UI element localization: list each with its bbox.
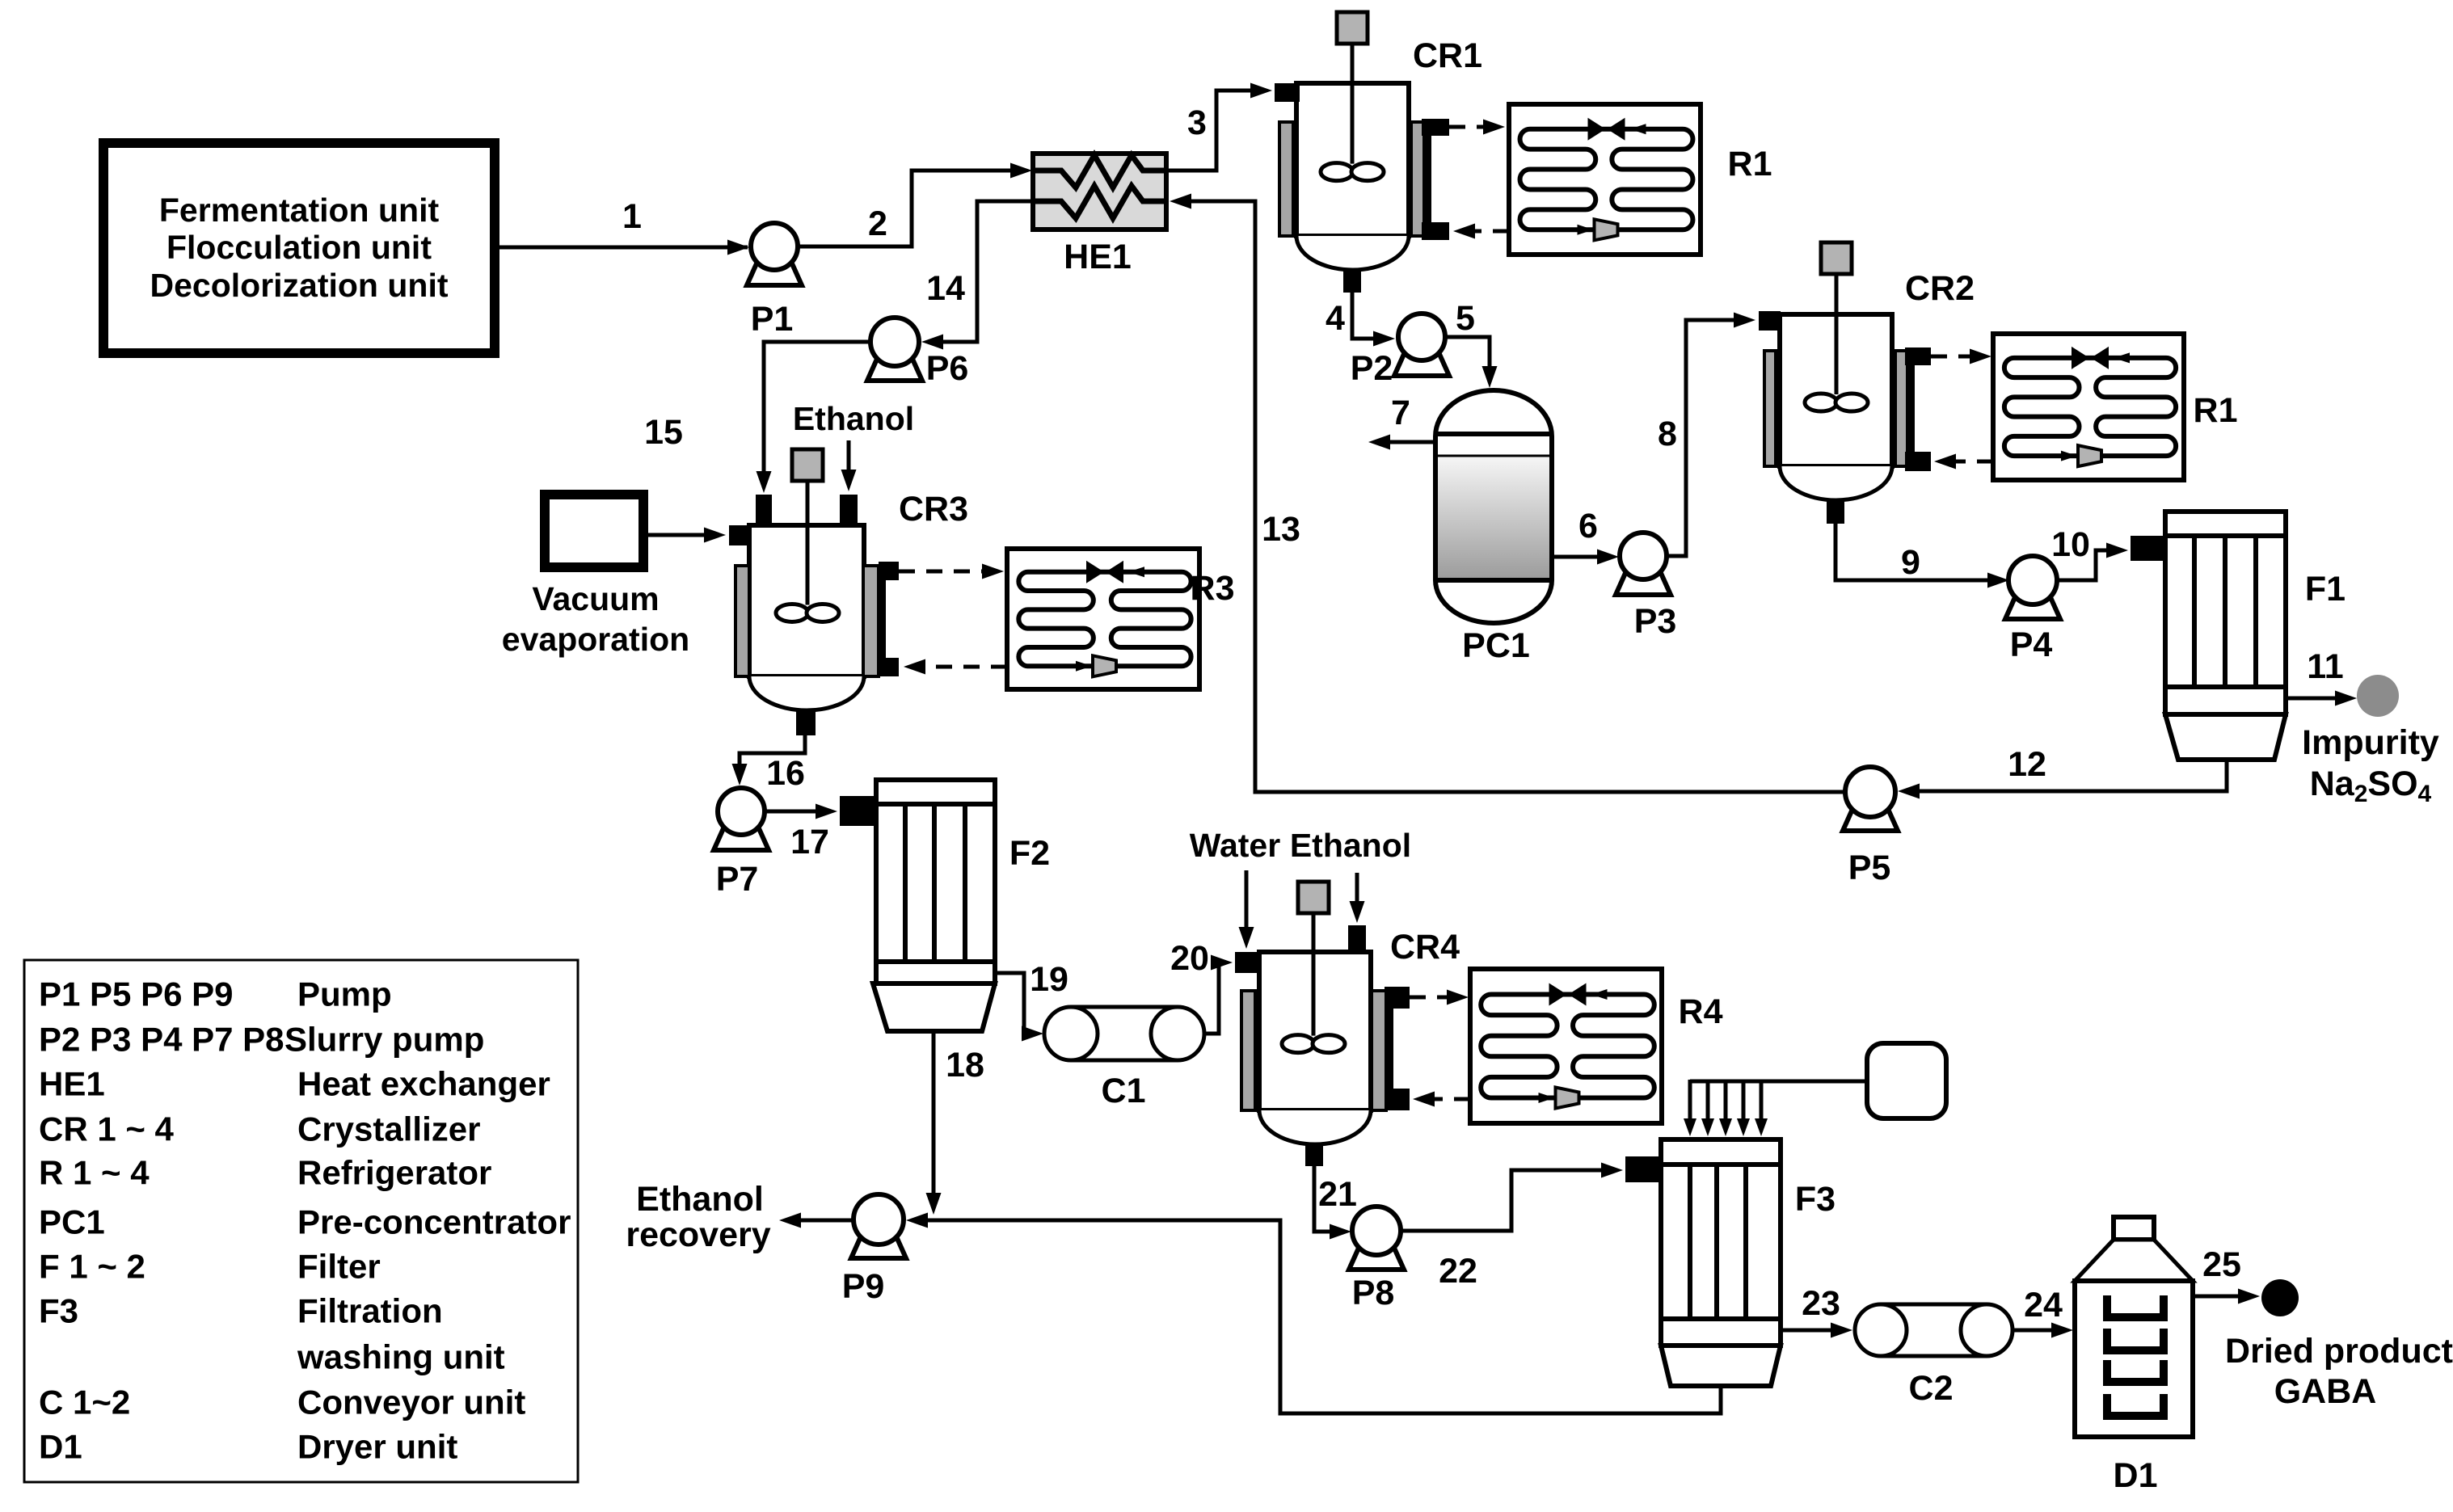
wire washing manifold <box>1690 1080 1867 1084</box>
D1 tray 3 <box>2107 1360 2164 1382</box>
svg-text:D1: D1 <box>39 1428 82 1466</box>
svg-text:R1: R1 <box>1728 145 1772 183</box>
wire stream 23 <box>1781 1329 1841 1333</box>
wire stream 22 <box>1401 1170 1612 1231</box>
svg-text:25: 25 <box>2202 1245 2241 1284</box>
CR3 bottom dome <box>749 676 864 710</box>
svg-text:C 1~2: C 1~2 <box>39 1384 130 1421</box>
CR1 ports <box>1275 83 1300 102</box>
heat exchanger HE1 <box>1033 154 1166 230</box>
CR1 vessel body <box>1296 83 1409 236</box>
filtration washing unit F3 <box>1661 1139 1781 1346</box>
svg-text:Water: Water <box>1190 827 1280 864</box>
wire stream 9 <box>1836 522 1998 580</box>
svg-text:washing unit: washing unit <box>297 1338 505 1376</box>
wire stream 8 <box>1667 320 1744 556</box>
pump P4 (slurry) <box>2005 596 2060 619</box>
svg-text:evaporation: evaporation <box>502 621 689 658</box>
wire stream 14 <box>931 201 1033 342</box>
CR2 stirrer motor <box>1835 271 1839 402</box>
svg-text:6: 6 <box>1578 507 1598 545</box>
svg-text:R1: R1 <box>2194 391 2238 430</box>
svg-text:P5: P5 <box>1848 849 1891 887</box>
svg-text:P7: P7 <box>716 860 759 899</box>
wire stream 4 <box>1352 293 1384 339</box>
CR3 stirrer motor <box>806 478 810 613</box>
svg-text:8: 8 <box>1658 415 1677 453</box>
filter F1 hopper <box>2165 714 2286 760</box>
svg-text:F2: F2 <box>1009 834 1050 873</box>
svg-text:recovery: recovery <box>626 1215 770 1254</box>
wire R1 to CR2 dashed return <box>1952 460 1993 464</box>
svg-text:CR4: CR4 <box>1390 928 1460 967</box>
filter F2 hopper <box>873 983 995 1031</box>
svg-text:Filter: Filter <box>297 1248 381 1286</box>
svg-text:P1: P1 <box>751 300 794 339</box>
svg-text:Pre-concentrator: Pre-concentrator <box>297 1203 571 1241</box>
svg-text:D1: D1 <box>2114 1456 2158 1495</box>
wire vacuum line to CR3 <box>643 533 714 537</box>
svg-text:Heat exchanger: Heat exchanger <box>297 1065 550 1103</box>
svg-text:P2: P2 <box>1351 349 1393 388</box>
svg-text:11: 11 <box>2307 647 2343 686</box>
wire R4 to CR4 dashed return <box>1431 1097 1470 1101</box>
svg-text:Dryer unit: Dryer unit <box>297 1428 457 1466</box>
wire stream 13 <box>1180 201 1845 792</box>
conveyor C1 <box>1071 1007 1178 1060</box>
pump P2 (slurry) <box>1394 352 1449 376</box>
D1 tray 4 <box>2107 1394 2164 1416</box>
svg-text:Flocculation unit: Flocculation unit <box>166 229 432 266</box>
CR4 impeller <box>1282 1035 1314 1053</box>
svg-text:10: 10 <box>2051 525 2090 564</box>
svg-text:Slurry pump: Slurry pump <box>284 1021 484 1059</box>
svg-text:P2 P3 P4 P7 P8: P2 P3 P4 P7 P8 <box>39 1021 284 1059</box>
pump P6 <box>867 357 922 381</box>
CR4 cooling jackets <box>1241 991 1255 1110</box>
wire stream 16 <box>740 735 805 774</box>
svg-text:14: 14 <box>926 269 965 308</box>
svg-text:Conveyor unit: Conveyor unit <box>297 1384 525 1421</box>
svg-text:C1: C1 <box>1102 1072 1146 1110</box>
svg-text:4: 4 <box>1326 299 1345 338</box>
wire stream 24 <box>2013 1329 2062 1333</box>
svg-text:Decolorization unit: Decolorization unit <box>150 267 449 304</box>
svg-text:Ethanol: Ethanol <box>636 1180 764 1219</box>
wire stream 18 <box>932 1031 936 1203</box>
svg-text:13: 13 <box>1262 510 1300 549</box>
svg-text:CR1: CR1 <box>1413 36 1482 75</box>
wire stream 15 <box>764 342 870 482</box>
CR2 ports <box>1759 311 1781 331</box>
svg-text:Filtration: Filtration <box>297 1292 443 1330</box>
svg-text:Ethanol: Ethanol <box>793 400 914 437</box>
washing water tank (rounded) <box>1867 1043 1946 1118</box>
svg-text:F1: F1 <box>2305 570 2346 609</box>
wire stream 25 <box>2193 1295 2249 1299</box>
svg-text:P6: P6 <box>926 349 969 388</box>
wire stream 1 <box>495 246 748 250</box>
svg-text:9: 9 <box>1901 543 1920 582</box>
svg-text:Crystallizer: Crystallizer <box>297 1110 480 1148</box>
svg-text:22: 22 <box>1439 1252 1477 1291</box>
D1 tray 2 <box>2107 1329 2164 1350</box>
svg-text:P9: P9 <box>842 1267 885 1306</box>
CR2 vessel body <box>1780 314 1892 466</box>
svg-text:3: 3 <box>1187 103 1207 142</box>
svg-text:P3: P3 <box>1634 602 1677 641</box>
svg-text:CR3: CR3 <box>899 490 968 529</box>
svg-text:Na2SO4: Na2SO4 <box>2310 764 2432 807</box>
wire stream 6 <box>1552 555 1608 559</box>
svg-text:Dried product: Dried product <box>2225 1332 2453 1371</box>
svg-text:P1 P5 P6 P9: P1 P5 P6 P9 <box>39 975 234 1013</box>
CR1 cooling jackets <box>1279 122 1293 236</box>
CR1 bottom dome <box>1296 236 1409 270</box>
port F1 inlet <box>2131 536 2167 561</box>
svg-text:2: 2 <box>868 204 887 243</box>
wire stream 7 <box>1379 440 1435 444</box>
svg-text:HE1: HE1 <box>39 1065 105 1103</box>
svg-text:Pump: Pump <box>297 975 392 1013</box>
wire stream 2 <box>798 171 1010 246</box>
refrigerator R1 (for CR1) <box>1509 104 1701 255</box>
wire stream 17 <box>765 810 826 814</box>
CR3 impeller <box>776 604 808 621</box>
svg-text:17: 17 <box>790 823 829 861</box>
port F2 inlet <box>840 796 876 826</box>
conveyor C2 <box>1881 1304 1987 1356</box>
CR4 vessel body <box>1259 952 1371 1110</box>
wire R3 to CR3 dashed return <box>921 665 1007 669</box>
svg-text:HE1: HE1 <box>1064 238 1132 276</box>
port F3 inlet <box>1625 1156 1659 1182</box>
dryer D1 <box>2114 1217 2154 1240</box>
pump P7 (slurry) <box>714 827 769 850</box>
svg-text:Vacuum: Vacuum <box>532 580 659 617</box>
pump P5 <box>1843 807 1898 831</box>
svg-text:CR2: CR2 <box>1905 269 1975 308</box>
wire stream 19 <box>995 973 1033 1034</box>
wire washing spray arrow 5 <box>1760 1081 1764 1125</box>
pump P8 (slurry) <box>1349 1246 1404 1270</box>
svg-text:5: 5 <box>1456 299 1475 338</box>
wire washing spray arrow 3 <box>1724 1081 1728 1125</box>
svg-text:F3: F3 <box>39 1292 78 1330</box>
wire F3 bottoms recycle to P9 <box>917 1220 1721 1413</box>
svg-text:18: 18 <box>946 1046 984 1085</box>
svg-text:Fermentation unit: Fermentation unit <box>159 192 440 229</box>
svg-text:F 1 ~ 2: F 1 ~ 2 <box>39 1248 145 1286</box>
svg-text:F3: F3 <box>1795 1180 1836 1219</box>
wire stream 3 <box>1166 91 1261 171</box>
CR1 stirrer motor <box>1351 40 1355 172</box>
refrigerator R4 <box>1470 969 1662 1123</box>
svg-text:C2: C2 <box>1909 1369 1954 1408</box>
CR3 cooling jackets <box>735 566 749 676</box>
wire washing spray arrow 4 <box>1742 1081 1746 1125</box>
svg-text:Ethanol: Ethanol <box>1290 827 1411 864</box>
svg-text:PC1: PC1 <box>39 1203 105 1241</box>
svg-text:CR 1 ~ 4: CR 1 ~ 4 <box>39 1110 175 1148</box>
CR1 impeller <box>1321 163 1353 181</box>
wire stream 20 <box>1204 962 1222 1034</box>
svg-text:Impurity: Impurity <box>2302 723 2439 762</box>
CR2 impeller <box>1805 394 1837 411</box>
legend box <box>24 960 578 1482</box>
filter F1 <box>2165 512 2286 714</box>
filter F2 <box>876 780 995 983</box>
CR3 vessel body <box>749 525 864 676</box>
wire stream 21 <box>1314 1166 1340 1232</box>
svg-text:GABA: GABA <box>2274 1372 2377 1411</box>
wire stream 5 <box>1445 337 1490 376</box>
wire stream 12 <box>1909 760 2227 791</box>
svg-text:R 1 ~ 4: R 1 ~ 4 <box>39 1154 150 1192</box>
svg-text:19: 19 <box>1030 960 1068 999</box>
refrigerator R3 <box>1007 549 1199 689</box>
wire stream 11 <box>2286 697 2346 701</box>
CR3 ports <box>756 495 772 525</box>
svg-text:24: 24 <box>2024 1286 2063 1325</box>
svg-text:12: 12 <box>2008 745 2046 784</box>
CR2 cooling jackets <box>1764 351 1776 466</box>
pump P9 <box>851 1235 906 1258</box>
svg-text:16: 16 <box>766 754 805 793</box>
svg-text:20: 20 <box>1170 939 1209 978</box>
svg-text:1: 1 <box>622 197 642 236</box>
CR4 bottom dome <box>1259 1110 1371 1144</box>
vacuum evaporation unit box <box>545 495 643 567</box>
svg-text:15: 15 <box>644 413 683 452</box>
svg-text:21: 21 <box>1318 1175 1357 1214</box>
CR4 ports <box>1235 952 1259 973</box>
node dried product dot <box>2261 1279 2299 1316</box>
wire ethanol recovery outlet <box>790 1219 853 1223</box>
svg-text:R4: R4 <box>1679 992 1723 1031</box>
svg-text:P8: P8 <box>1352 1274 1395 1312</box>
pre-concentrator PC1 <box>1435 390 1552 623</box>
wire washing spray arrow 2 <box>1706 1081 1710 1125</box>
wire R1 to CR1 dashed return <box>1471 230 1509 234</box>
D1 tray 1 <box>2107 1295 2164 1317</box>
svg-text:23: 23 <box>1802 1284 1840 1323</box>
source box: Fermentation/Flocculation/Decolorization unit <box>103 143 495 353</box>
pump P3 (slurry) <box>1616 571 1671 595</box>
svg-text:Refrigerator: Refrigerator <box>297 1154 491 1192</box>
wire stream 10 <box>2057 550 2118 580</box>
refrigerator R1 (for CR2) <box>1993 334 2184 480</box>
svg-text:R3: R3 <box>1191 569 1235 608</box>
wire CR2 to R1 dashed supply <box>1931 355 1972 359</box>
CR4 stirrer motor <box>1312 910 1316 1044</box>
F3 hopper <box>1661 1346 1781 1386</box>
svg-text:PC1: PC1 <box>1462 626 1530 665</box>
svg-text:7: 7 <box>1391 394 1410 432</box>
CR2 bottom dome <box>1780 466 1892 500</box>
wire CR4 to R4 dashed supply <box>1410 996 1449 1000</box>
node Impurity Na2SO4 outlet dot <box>2357 675 2399 717</box>
pump P1 <box>747 262 802 285</box>
wire CR3 to R3 dashed supply <box>899 570 984 574</box>
svg-text:P4: P4 <box>2010 625 2053 664</box>
wire CR1 to R1 dashed supply <box>1449 125 1486 129</box>
